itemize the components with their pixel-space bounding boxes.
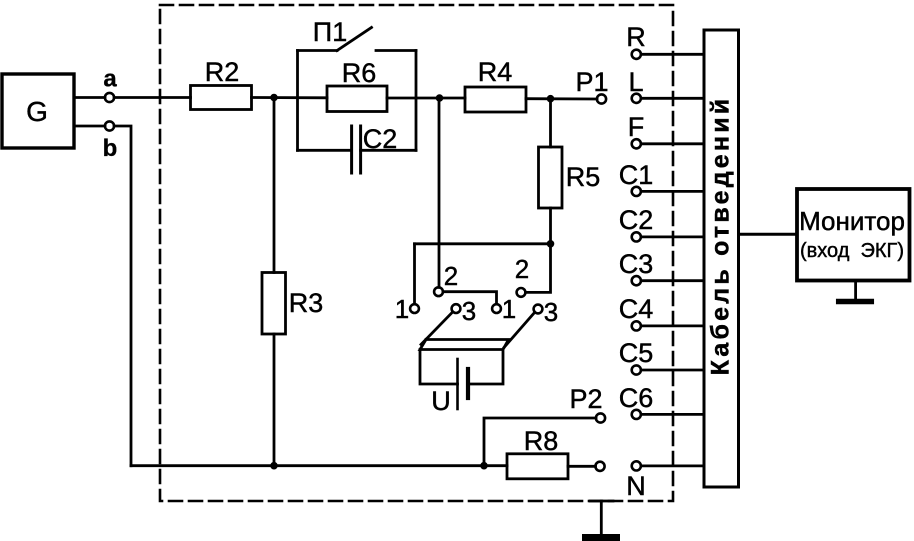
ground symbol bbox=[590, 500, 613, 503]
svg-text:P1: P1 bbox=[575, 67, 608, 97]
svg-text:F: F bbox=[628, 112, 645, 142]
lead cable box bbox=[704, 30, 739, 487]
capacitor C2 bottom wires bbox=[298, 149, 352, 152]
resistor R5 bbox=[539, 147, 563, 208]
bottom bus wire bbox=[131, 464, 484, 467]
wire R5 to junction bbox=[549, 208, 552, 244]
svg-text:G: G bbox=[26, 96, 48, 127]
switch P1 arm bbox=[337, 28, 372, 51]
resistor R8 bbox=[507, 454, 568, 479]
node under R5 bbox=[547, 240, 555, 248]
wiper wire 2-left to 1-right bbox=[443, 292, 497, 304]
resistor R3 bbox=[262, 273, 286, 335]
wire bus to R8 bbox=[484, 464, 507, 467]
wire down to R5 bbox=[549, 99, 552, 147]
wire cable to monitor bbox=[739, 233, 797, 236]
svg-text:C5: C5 bbox=[619, 338, 654, 368]
svg-text:R5: R5 bbox=[566, 162, 601, 192]
svg-text:R3: R3 bbox=[289, 288, 324, 318]
wire node down to switch contact 2 left bbox=[438, 98, 441, 287]
wire G to terminal b bbox=[74, 125, 105, 128]
svg-text:b: b bbox=[103, 135, 118, 162]
terminal R8 right circle bbox=[595, 462, 604, 471]
contact 2 right circle bbox=[517, 288, 526, 297]
monitor stand bbox=[854, 281, 857, 301]
svg-text:2: 2 bbox=[515, 254, 529, 284]
terminal b circle bbox=[105, 121, 114, 130]
svg-text:R4: R4 bbox=[478, 57, 513, 87]
svg-text:Кабель отведений: Кабель отведений bbox=[707, 96, 735, 376]
svg-text:3: 3 bbox=[462, 296, 476, 326]
monitor box bbox=[797, 189, 910, 281]
lead terminal C3 bbox=[632, 276, 641, 285]
lead terminal L bbox=[632, 94, 641, 103]
resistor R6 bbox=[327, 86, 387, 112]
battery U short plate bbox=[466, 369, 470, 398]
svg-text:R8: R8 bbox=[524, 426, 559, 456]
svg-text:C2: C2 bbox=[363, 124, 398, 154]
lead terminal C5 bbox=[632, 365, 641, 374]
switch P1 fixed segments top bbox=[298, 49, 338, 52]
svg-text:2: 2 bbox=[444, 261, 458, 291]
svg-text:R2: R2 bbox=[205, 57, 240, 87]
terminal P2 circle bbox=[596, 413, 605, 422]
svg-text:(вход ЭКГ): (вход ЭКГ) bbox=[800, 240, 904, 262]
wire P2 branch bbox=[484, 418, 596, 466]
wire a to R2 bbox=[114, 96, 190, 99]
lead terminal N bbox=[632, 461, 641, 470]
wire G to terminal a bbox=[74, 96, 105, 99]
dashed enclosure border bbox=[160, 5, 673, 501]
contact 1 left circle bbox=[410, 304, 419, 313]
wire down to R3 bbox=[273, 98, 276, 273]
terminal P1 circle bbox=[597, 94, 606, 103]
svg-text:N: N bbox=[626, 471, 646, 501]
wire R3 to bottom bus bbox=[273, 334, 276, 466]
capacitor C2 plates bbox=[350, 126, 353, 173]
resistor R2 bbox=[191, 86, 252, 110]
bus wire above switch bbox=[415, 242, 551, 245]
generator G box bbox=[2, 74, 74, 148]
svg-text:C3: C3 bbox=[619, 249, 654, 279]
contact 3 right circle bbox=[534, 305, 543, 314]
node R3 bottom bbox=[270, 462, 278, 470]
svg-text:C6: C6 bbox=[619, 383, 654, 413]
contact 1 right circle bbox=[492, 304, 501, 313]
svg-text:P2: P2 bbox=[569, 384, 602, 414]
lead terminal C6 bbox=[632, 410, 641, 419]
group box right edge bbox=[415, 51, 418, 151]
wire contact 3 left to battery bbox=[421, 312, 453, 345]
contact 2 left circle bbox=[434, 287, 443, 296]
lead terminal C4 bbox=[632, 321, 641, 330]
contact 3 left circle bbox=[452, 304, 461, 313]
svg-text:U: U bbox=[431, 386, 451, 416]
wire R2 to R6 group bbox=[252, 96, 328, 99]
lead terminal C2 bbox=[632, 232, 641, 241]
node after R4 bbox=[547, 95, 555, 103]
svg-text:C2: C2 bbox=[619, 205, 654, 235]
node P2 branch bbox=[480, 462, 488, 470]
node after R6 group bbox=[436, 94, 444, 102]
lead terminal R bbox=[632, 50, 641, 59]
svg-text:3: 3 bbox=[544, 297, 558, 327]
lead terminal F bbox=[632, 139, 641, 148]
svg-text:П1: П1 bbox=[313, 17, 347, 47]
svg-text:R: R bbox=[626, 22, 646, 52]
wire contact 3 right to battery bbox=[504, 312, 535, 347]
node after R2 bbox=[270, 94, 278, 102]
wire R8 to terminal bbox=[568, 465, 596, 468]
svg-text:C1: C1 bbox=[619, 160, 654, 190]
wire R6 right to R4 bbox=[387, 97, 465, 100]
wire b down left side bbox=[114, 126, 131, 466]
lead terminal C1 bbox=[632, 187, 641, 196]
wire 2-right up to junction bbox=[525, 244, 550, 293]
battery U box bbox=[420, 340, 509, 385]
svg-text:R6: R6 bbox=[342, 58, 377, 88]
svg-text:L: L bbox=[628, 67, 643, 97]
wire R4 to P1 terminal bbox=[526, 97, 597, 100]
battery U long plate bbox=[456, 359, 459, 409]
resistor R4 bbox=[465, 87, 526, 112]
svg-text:a: a bbox=[103, 66, 117, 93]
svg-text:C4: C4 bbox=[619, 294, 654, 324]
wire down to contact 1 left bbox=[413, 244, 416, 304]
terminal a circle bbox=[105, 93, 114, 102]
svg-text:1: 1 bbox=[395, 294, 409, 324]
P1-switch group box left edge bbox=[296, 51, 299, 151]
svg-text:1: 1 bbox=[502, 294, 516, 324]
svg-text:Монитор: Монитор bbox=[799, 206, 905, 236]
